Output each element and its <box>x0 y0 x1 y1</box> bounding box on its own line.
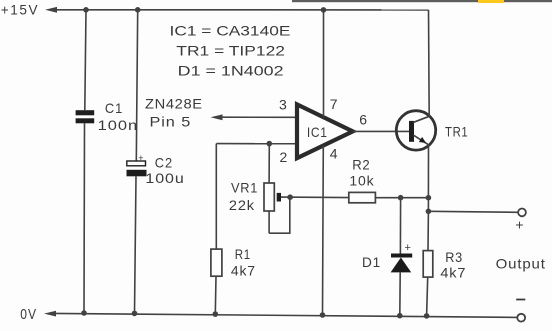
wire C2 lower lead <box>135 176 137 313</box>
wire D1 upper lead <box>399 198 401 254</box>
wire pin7 supply <box>323 10 325 118</box>
svg-text:+: + <box>138 153 143 163</box>
svg-text:VR1: VR1 <box>231 179 258 195</box>
resistor R2 <box>349 192 376 202</box>
wire R2 to emitter node <box>375 197 428 199</box>
junction top C1 <box>83 7 89 13</box>
svg-text:+: + <box>515 217 523 233</box>
op-amp U1 triangle <box>297 104 353 158</box>
junction VR1 wiper <box>287 194 293 200</box>
page-edge gray band <box>292 0 552 2</box>
svg-text:R2: R2 <box>352 157 370 173</box>
junction VR1 top <box>267 141 273 147</box>
wire R3 upper lead <box>427 211 429 250</box>
capacitor C2 <box>127 161 147 176</box>
junction bottom C2 <box>132 311 138 317</box>
svg-text:4k7: 4k7 <box>231 263 256 279</box>
output minus sign <box>516 299 525 301</box>
svg-text:C2: C2 <box>155 154 173 170</box>
junction bottom R3 <box>424 313 430 319</box>
junction bottom pin4 <box>320 312 326 318</box>
svg-text:R1: R1 <box>235 246 251 262</box>
junction bottom D1 <box>397 313 403 319</box>
wire R1 lower lead <box>214 276 217 314</box>
wire R3 lower lead <box>427 277 428 316</box>
svg-text:TR1: TR1 <box>445 124 468 140</box>
wire pin4 ground <box>322 145 325 315</box>
svg-text:2: 2 <box>280 149 288 165</box>
svg-text:D1 = 1N4002: D1 = 1N4002 <box>178 62 284 78</box>
junction top pin7 <box>321 7 327 13</box>
potentiometer VR1 <box>264 183 274 211</box>
svg-text:7: 7 <box>330 96 338 112</box>
yellow highlight mark <box>478 0 504 3</box>
capacitor C1 <box>76 110 95 123</box>
parts list text <box>170 22 291 78</box>
wire C1 upper lead <box>85 10 86 110</box>
svg-text:0V: 0V <box>20 306 37 323</box>
svg-text:IC1 = CA3140E: IC1 = CA3140E <box>170 22 291 38</box>
wire pin2 horizontal <box>216 143 296 145</box>
wire to output plus terminal <box>428 211 518 212</box>
wire collector to rail <box>428 10 431 117</box>
+15V rail arrowhead <box>45 7 57 13</box>
0V rail arrowhead <box>44 311 56 317</box>
svg-text:D1: D1 <box>362 254 381 270</box>
wire R1 upper lead <box>215 144 217 250</box>
svg-text:Output: Output <box>496 255 546 271</box>
svg-text:+15V: +15V <box>1 2 39 18</box>
junction output plus node <box>426 209 432 215</box>
wire VR1 bottom link <box>269 197 290 233</box>
svg-text:100u: 100u <box>145 170 184 186</box>
junction bottom C1 <box>81 310 87 316</box>
svg-text:100n: 100n <box>98 117 139 133</box>
pin3 input arrowhead <box>211 114 223 120</box>
svg-text:TR1 = TIP122: TR1 = TIP122 <box>176 43 285 59</box>
svg-text:4k7: 4k7 <box>440 265 466 281</box>
svg-text:IC1: IC1 <box>307 124 328 140</box>
wire C2 upper lead <box>136 10 137 161</box>
svg-text:6: 6 <box>359 111 367 127</box>
diode D1 <box>391 254 413 273</box>
svg-text:4: 4 <box>330 146 338 162</box>
wire C1 lower lead <box>83 123 86 313</box>
svg-text:C1: C1 <box>105 100 123 116</box>
svg-text:3: 3 <box>279 96 287 112</box>
wire emitter down <box>427 145 429 212</box>
wire op-amp output to base <box>353 130 409 132</box>
junction top C2 <box>135 7 141 13</box>
svg-text:ZN428E: ZN428E <box>145 96 203 112</box>
wire VR1 bottom lead <box>268 211 270 233</box>
svg-text:Pin 5: Pin 5 <box>150 114 192 130</box>
wire 0V rail <box>54 313 517 317</box>
resistor R3 <box>423 251 433 278</box>
terminal output plus <box>518 209 526 217</box>
svg-text:22k: 22k <box>229 197 255 213</box>
wire wiper to R2 <box>281 196 349 199</box>
junction bottom R1 <box>213 311 219 317</box>
VR1 wiper contact <box>277 193 281 202</box>
transistor TR1 <box>396 111 435 150</box>
junction D1 top <box>398 195 404 201</box>
svg-text:+: + <box>405 242 411 254</box>
wire D1 lower lead <box>399 272 401 315</box>
junction emitter node <box>426 195 432 201</box>
resistor R1 <box>211 249 222 276</box>
svg-text:10k: 10k <box>349 172 374 188</box>
wire +15V rail <box>55 9 429 11</box>
svg-text:R3: R3 <box>445 249 463 265</box>
wire pin3 input <box>220 116 296 118</box>
terminal output minus <box>517 314 525 322</box>
wire VR1 top lead <box>268 144 270 183</box>
